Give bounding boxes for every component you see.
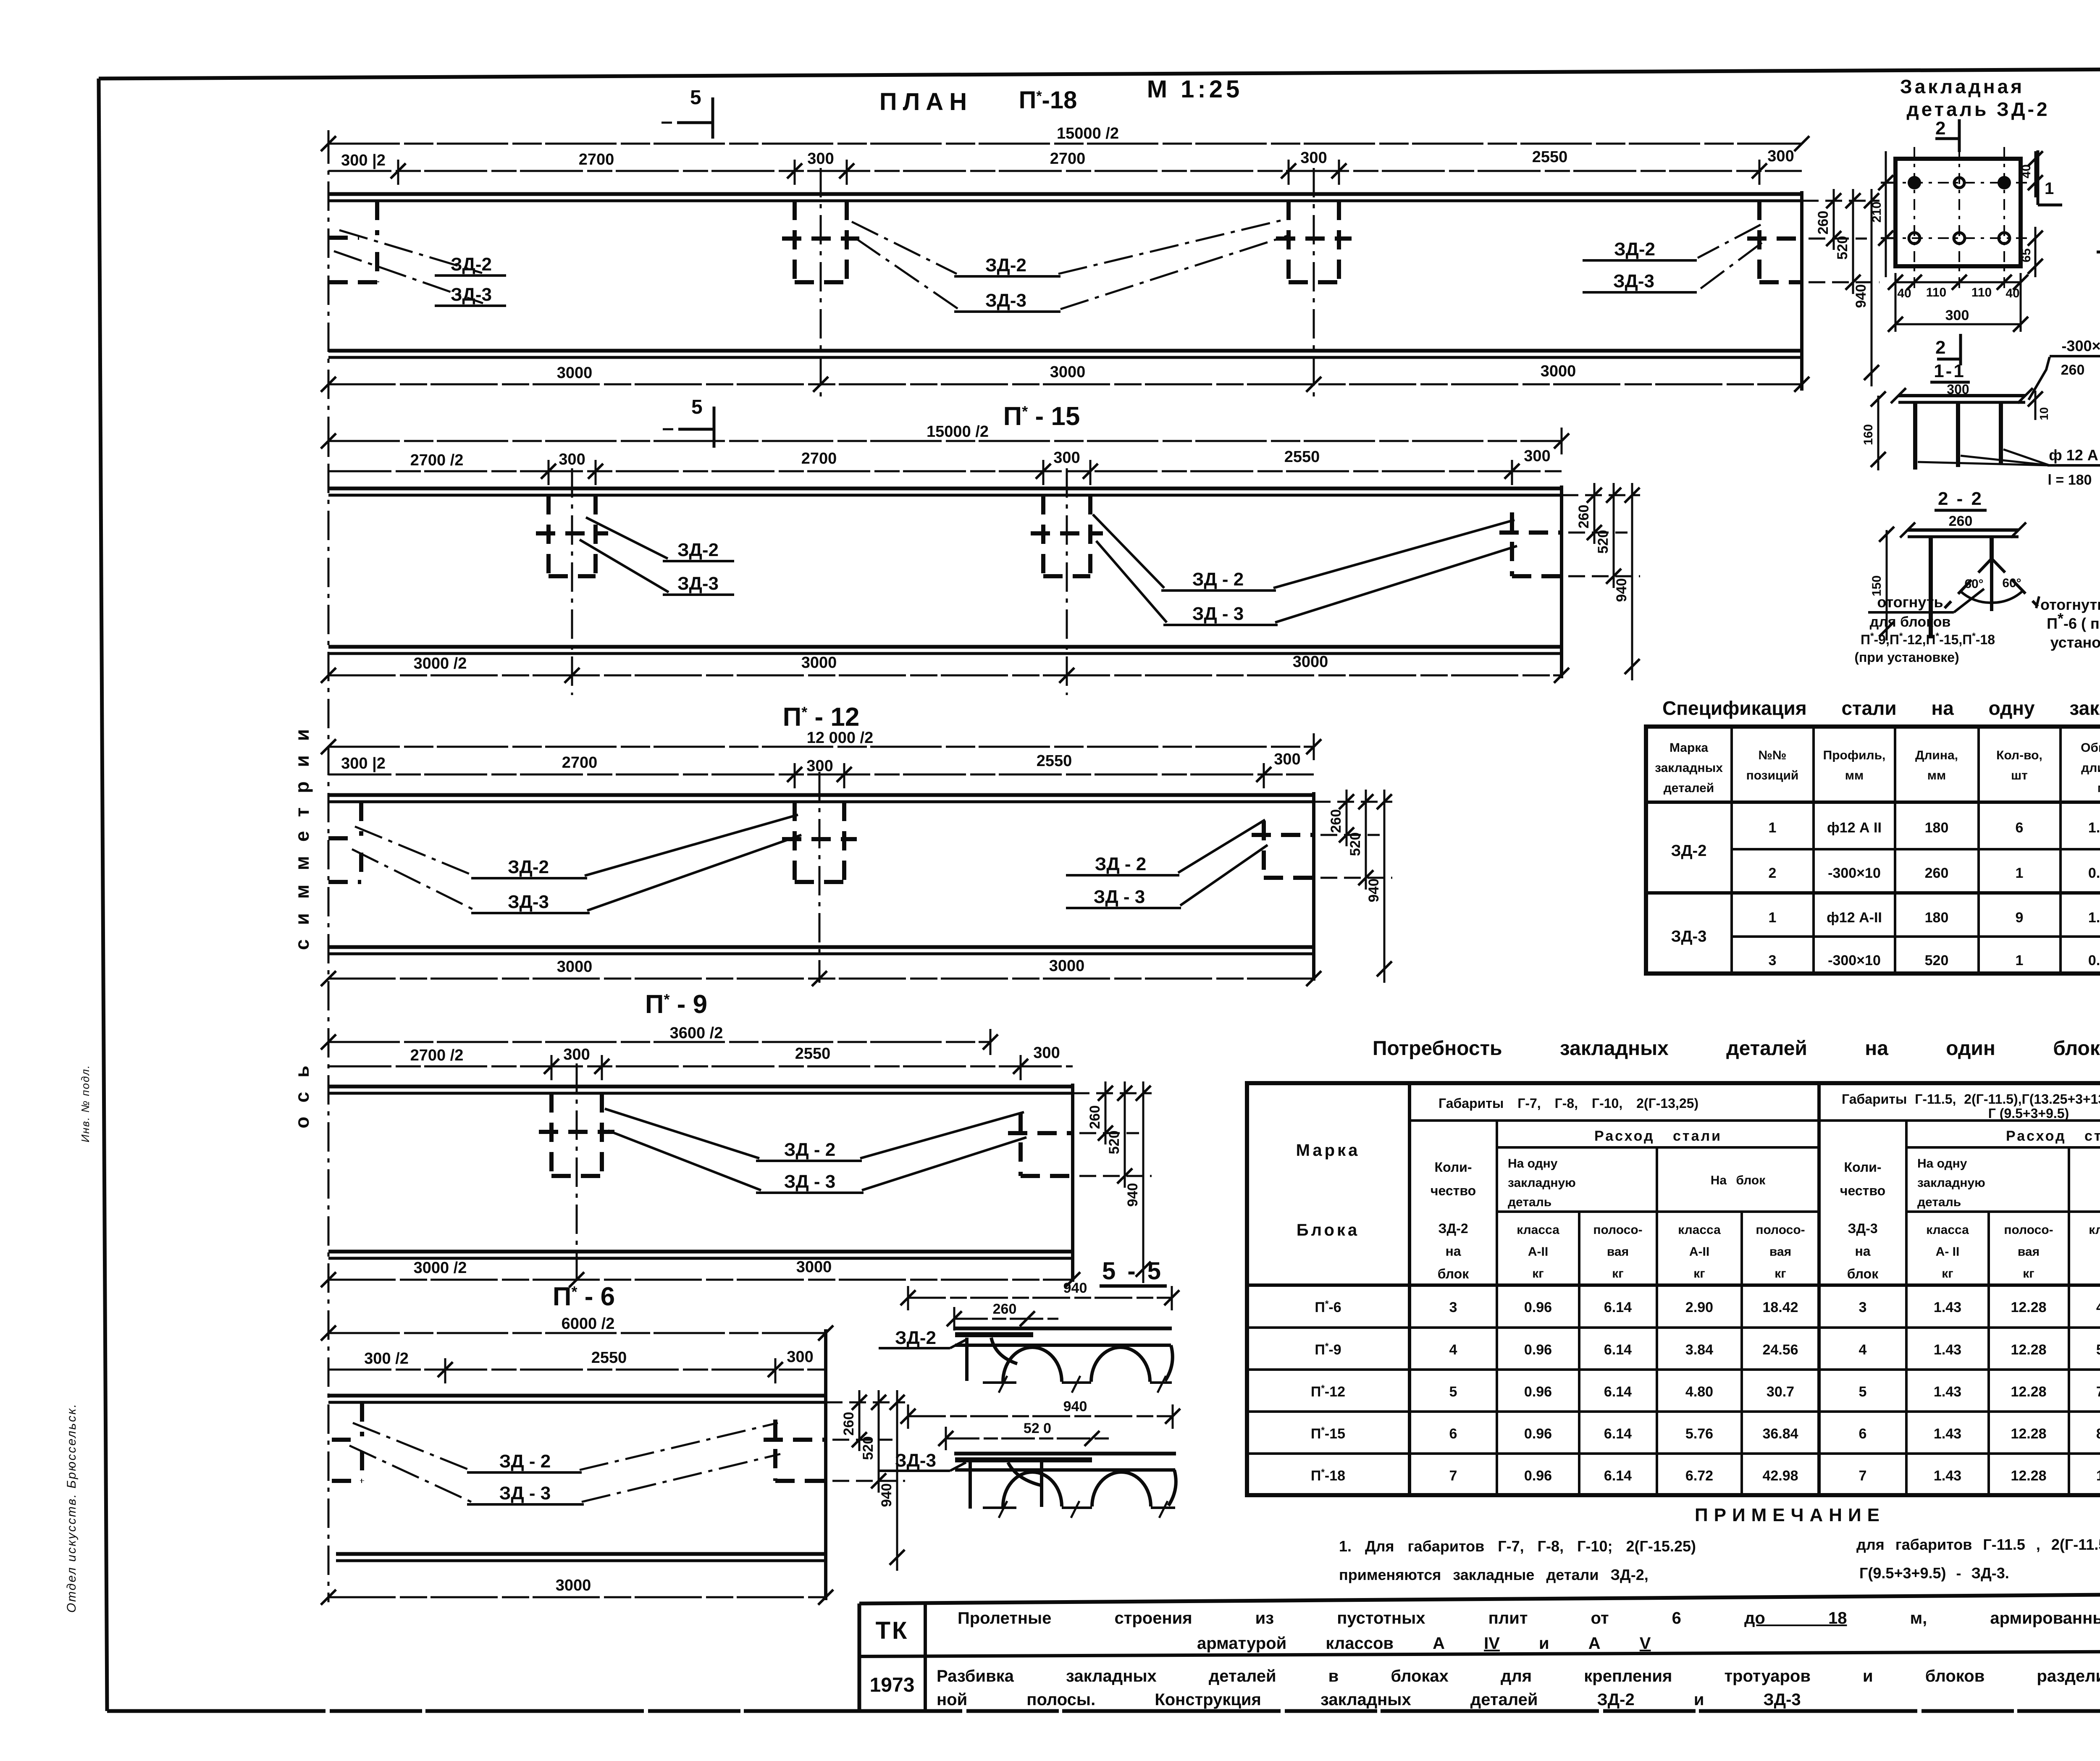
svg-text:вая: вая <box>1769 1245 1791 1259</box>
svg-text:4: 4 <box>1859 1342 1867 1358</box>
svg-text:520: 520 <box>1835 236 1851 260</box>
specification steel table <box>1646 727 2100 974</box>
svg-text:-300×10: -300×10 <box>1828 953 1881 968</box>
svg-text:42.98: 42.98 <box>1762 1468 1798 1484</box>
beam bottom edge double line <box>328 1252 1073 1258</box>
svg-text:На одну: На одну <box>1917 1157 1967 1171</box>
dimension line 3600/2 <box>321 1024 998 1055</box>
svg-text:10.0: 10.0 <box>2096 1468 2100 1484</box>
leader label ф12АII l=180 pos.1 <box>1918 446 2100 488</box>
right vertical dims 260 520 940 <box>1314 790 1392 983</box>
header texts <box>1655 741 2100 795</box>
svg-text:ной полосы. Конструкция заклад: ной полосы. Конструкция закладных детале… <box>937 1690 1801 1709</box>
svg-text:П*-9,П*-12,П*-15,П*-18: П*-9,П*-12,П*-15,П*-18 <box>1861 631 1995 647</box>
beam right end line <box>1560 486 1563 678</box>
beam bottom edge double line <box>328 351 1802 357</box>
svg-text:применяются закладные детали: применяются закладные детали ЗД-2, <box>1339 1566 1648 1583</box>
hollow slab section with embed plate <box>954 1454 1176 1518</box>
section 2-2 <box>1854 488 2100 665</box>
leader ЗД-3 at E1 <box>580 540 734 595</box>
svg-text:П*-6: П*-6 <box>1315 1299 1341 1315</box>
svg-text:3.84: 3.84 <box>1685 1342 1713 1358</box>
svg-text:арматурой классов А IV и А V: арматурой классов А IV и А V <box>1197 1634 1651 1653</box>
right vertical dims 260 520 940 <box>1802 189 1879 386</box>
beam bottom edge double line <box>336 1554 826 1561</box>
leader ЗД-2 right <box>1066 820 1265 875</box>
svg-text:А-II: А-II <box>1528 1245 1548 1259</box>
svg-text:520: 520 <box>860 1436 876 1460</box>
svg-text:-300×10: -300×10 <box>2061 337 2100 354</box>
plate ЗД-2 <box>1895 159 2021 266</box>
svg-text:300: 300 <box>1053 449 1080 467</box>
svg-text:2: 2 <box>1935 118 1945 139</box>
beam top edge double line <box>328 1396 826 1402</box>
embed plate E4 right (dashed) <box>1747 201 1802 282</box>
centerline embed E2 <box>820 168 822 401</box>
svg-text:940: 940 <box>1853 284 1869 308</box>
beam bottom edge double line <box>328 647 1562 653</box>
svg-text:ЗД - 2: ЗД - 2 <box>499 1451 551 1472</box>
axis of symmetry centerline <box>328 134 330 1602</box>
svg-text:2700: 2700 <box>562 754 598 772</box>
svg-text:12 000 /2: 12 000 /2 <box>807 729 873 747</box>
svg-text:ось: ось <box>291 1051 313 1128</box>
right small dims 40 65 <box>2019 151 2043 277</box>
svg-text:полосо-: полосо- <box>1756 1223 1805 1237</box>
svg-text:6.14: 6.14 <box>1604 1426 1632 1442</box>
beam top edge double line <box>328 795 1314 802</box>
svg-text:ЗД - 2: ЗД - 2 <box>1095 854 1146 874</box>
svg-text:мм: мм <box>1845 769 1864 782</box>
svg-text:вая: вая <box>2018 1245 2040 1259</box>
section mark 1 right <box>2038 150 2062 205</box>
svg-text:Расход стали: Расход стали <box>2006 1128 2100 1144</box>
svg-text:Общая: Общая <box>2081 741 2100 755</box>
svg-text:Кол-во,: Кол-во, <box>1996 748 2042 762</box>
hole centerlines <box>1886 147 2033 294</box>
svg-text:6.14: 6.14 <box>1604 1299 1632 1315</box>
beam bottom edge double line <box>328 947 1314 954</box>
svg-text:940: 940 <box>879 1483 895 1507</box>
svg-text:3000 /2: 3000 /2 <box>414 655 467 672</box>
svg-text:1: 1 <box>1769 910 1777 926</box>
right small dim 10 <box>2028 391 2050 420</box>
svg-text:1: 1 <box>1769 820 1777 836</box>
svg-text:позиций: позиций <box>1746 769 1799 782</box>
svg-text:65: 65 <box>2019 248 2033 262</box>
svg-text:0.96: 0.96 <box>1524 1342 1552 1358</box>
title block <box>859 1593 2100 1711</box>
label ЗД-3 with leader <box>879 1450 966 1471</box>
svg-text:24.56: 24.56 <box>1762 1342 1798 1358</box>
svg-text:Закладная: Закладная <box>1900 76 2024 97</box>
svg-text:ТК: ТК <box>876 1617 909 1644</box>
svg-text:l = 180: l = 180 <box>2048 472 2092 488</box>
svg-text:Коли-: Коли- <box>1844 1160 1882 1175</box>
data rows <box>1671 820 2100 968</box>
svg-text:300: 300 <box>1524 447 1550 465</box>
svg-text:5: 5 <box>691 396 703 418</box>
leader ЗД-3 middle <box>1096 541 1517 625</box>
svg-text:деталь: деталь <box>1508 1195 1551 1209</box>
svg-text:3600 /2: 3600 /2 <box>670 1024 723 1042</box>
svg-text:2550: 2550 <box>795 1045 831 1063</box>
svg-text:блок: блок <box>1438 1266 1469 1281</box>
svg-text:класса: класса <box>1926 1223 1969 1237</box>
dimension line 300/2 2550 300 <box>328 1348 826 1383</box>
svg-text:ЗД-2: ЗД-2 <box>895 1328 936 1348</box>
row horizontals <box>1247 1283 2100 1287</box>
svg-text:40: 40 <box>2019 164 2033 178</box>
section mark 2 top <box>1935 118 1959 152</box>
svg-text:для габаритов Г-11.5 , 2(Г-: для габаритов Г-11.5 , 2(Г-11.5), Г(13.2… <box>1856 1536 2100 1553</box>
embed plate left (dashed) <box>332 1402 362 1481</box>
svg-text:3000: 3000 <box>557 958 593 976</box>
embed plate E1 (dashed) <box>536 495 608 576</box>
svg-text:Разбивка закладных деталей в б: Разбивка закладных деталей в блоках для … <box>937 1667 2100 1685</box>
dimension line 6000/2 <box>321 1315 833 1341</box>
svg-text:ЗД-2: ЗД-2 <box>1671 842 1707 860</box>
svg-text:160: 160 <box>1861 424 1875 445</box>
svg-text:-300×10: -300×10 <box>1828 865 1881 881</box>
svg-text:3000: 3000 <box>801 654 837 672</box>
bottom dims 40 110 110 40 <box>1888 275 2028 300</box>
svg-text:для блоков: для блоков <box>1870 614 1951 630</box>
svg-text:ф 12 А II: ф 12 А II <box>2049 446 2100 464</box>
leader ЗД-3 left <box>352 835 801 913</box>
leader ЗД-2 right <box>1583 225 1761 260</box>
dimension line 15000/2 <box>321 423 1569 454</box>
svg-text:Длина,: Длина, <box>1915 748 1958 762</box>
svg-text:ПЛАН: ПЛАН <box>879 88 973 115</box>
row2 text Разбивка закладных деталей <box>937 1667 2100 1709</box>
dimension line 2700/2 300 2700 300 2550 300 <box>328 447 1562 485</box>
svg-text:5: 5 <box>1859 1384 1867 1400</box>
leader ЗД-2 left <box>355 815 798 878</box>
anchor studs <box>1915 402 2001 470</box>
svg-text:36.84: 36.84 <box>1762 1426 1798 1442</box>
section 5-5 slab view ЗД-2 <box>879 1280 1179 1393</box>
svg-text:260: 260 <box>2061 362 2085 378</box>
svg-text:Инв. № подл.: Инв. № подл. <box>79 1065 92 1142</box>
svg-text:4.30: 4.30 <box>2096 1299 2100 1315</box>
svg-text:ЗД-2: ЗД-2 <box>451 254 492 275</box>
plate bar <box>1900 522 2026 538</box>
embedded detail ЗД-3 <box>2097 74 2100 716</box>
svg-text:Профиль,: Профиль, <box>1823 748 1886 762</box>
svg-text:10: 10 <box>2037 407 2050 420</box>
row1 text Пролетные строения <box>958 1609 2100 1653</box>
dimension line 15000/2 <box>321 125 1809 157</box>
label ЗД-2 with leader <box>879 1328 966 1348</box>
svg-text:0.96: 0.96 <box>1524 1299 1552 1315</box>
svg-text:300: 300 <box>1033 1044 1060 1062</box>
svg-text:ЗД-3: ЗД-3 <box>1613 271 1654 291</box>
svg-text:300: 300 <box>1767 147 1794 165</box>
title ПЛАН П*-18 М 1:25 <box>879 76 1243 115</box>
svg-text:3000: 3000 <box>1050 363 1086 381</box>
svg-text:(при установке): (при установке) <box>1854 650 1959 665</box>
section mark 3 left <box>2097 213 2100 252</box>
title Закладная деталь ЗД-2 <box>1900 76 2050 120</box>
svg-text:210: 210 <box>1870 202 1884 223</box>
svg-text:2.90: 2.90 <box>1685 1299 1713 1315</box>
svg-text:12.28: 12.28 <box>2011 1468 2046 1484</box>
svg-text:3: 3 <box>1449 1299 1457 1315</box>
svg-text:на: на <box>1445 1244 1461 1259</box>
svg-text:520: 520 <box>1106 1131 1122 1155</box>
svg-text:110: 110 <box>1971 286 1992 299</box>
svg-text:30.7: 30.7 <box>1767 1384 1794 1400</box>
data rows <box>1311 1299 2100 1484</box>
svg-text:Г (9.5+3+9.5): Г (9.5+3+9.5) <box>1988 1106 2069 1121</box>
svg-text:260: 260 <box>1925 865 1949 881</box>
embed plate E1 (dashed) <box>782 802 857 882</box>
verticals <box>1730 727 1733 974</box>
svg-text:ЗД-3: ЗД-3 <box>1671 928 1707 945</box>
svg-text:2550: 2550 <box>1532 148 1568 166</box>
svg-text:3000: 3000 <box>1049 957 1085 975</box>
svg-text:8.58: 8.58 <box>2096 1426 2100 1442</box>
note отогнуть для блоков <box>1854 589 1995 665</box>
svg-text:40: 40 <box>1897 286 1911 300</box>
embed plate E2 (dashed) <box>1031 495 1103 576</box>
leader ЗД-2 middle <box>1093 514 1515 590</box>
label 1-1 <box>1930 361 1970 397</box>
svg-text:Расход стали: Расход стали <box>1594 1128 1722 1144</box>
svg-text:2700 /2: 2700 /2 <box>410 451 464 469</box>
svg-text:Марка: Марка <box>1669 741 1708 755</box>
beam top edge double line <box>328 488 1562 495</box>
svg-text:260: 260 <box>1949 513 1973 529</box>
dimension line 300/2 2700 300 2550 300 <box>328 751 1314 788</box>
svg-text:12.28: 12.28 <box>2011 1299 2046 1315</box>
embed plate E3 (dashed) <box>1276 201 1352 282</box>
svg-text:12.28: 12.28 <box>2011 1426 2046 1442</box>
svg-text:260: 260 <box>993 1301 1017 1317</box>
svg-text:2: 2 <box>1935 337 1945 358</box>
bottom dimension line 3000/2 3000 3000 <box>321 653 1569 683</box>
svg-text:Пролетные строения из пустотны: Пролетные строения из пустотных плит от … <box>958 1609 2100 1627</box>
holes row 1 <box>1908 176 2011 189</box>
svg-text:180: 180 <box>1925 820 1949 836</box>
header texts <box>1296 1092 2100 1281</box>
note отогнуть для П-6 <box>2036 596 2100 651</box>
svg-text:7: 7 <box>1449 1468 1457 1484</box>
dim 940 <box>900 1399 1180 1429</box>
svg-text:6.72: 6.72 <box>1685 1468 1713 1484</box>
svg-text:ЗД-3: ЗД-3 <box>508 892 549 912</box>
svg-text:А- II: А- II <box>1936 1245 1960 1259</box>
svg-text:деталь ЗД-2: деталь ЗД-2 <box>1906 98 2050 120</box>
hollow slab section with embed plate <box>954 1328 1173 1393</box>
svg-text:940: 940 <box>1614 578 1630 602</box>
svg-text:1.43: 1.43 <box>1934 1299 1961 1315</box>
svg-text:мм: мм <box>1927 769 1946 782</box>
svg-text:на: на <box>1855 1244 1870 1259</box>
svg-text:ЗД - 3: ЗД - 3 <box>1094 887 1145 907</box>
svg-text:шт: шт <box>2011 769 2028 782</box>
leader ЗД-3 left <box>334 251 506 306</box>
dimension line 12000/2 <box>321 729 1321 760</box>
svg-text:П*-9: П*-9 <box>1315 1341 1341 1358</box>
svg-text:ЗД - 2: ЗД - 2 <box>1192 569 1244 590</box>
embed plate right (dashed) <box>764 1420 826 1481</box>
svg-text:отогнуть для: отогнуть для <box>2040 596 2100 613</box>
left margin archive handwriting (vertical) <box>65 1065 92 1613</box>
svg-text:2 - 2: 2 - 2 <box>1938 488 1983 509</box>
svg-text:деталей: деталей <box>1664 781 1714 795</box>
embed plate E2 (dashed) <box>782 201 859 282</box>
embed plate E1 left (dashed) <box>328 201 377 282</box>
svg-text:520: 520 <box>1347 832 1363 856</box>
svg-text:2550: 2550 <box>591 1349 627 1367</box>
section flag 5 bottom <box>663 396 714 448</box>
svg-text:1.62: 1.62 <box>2088 910 2100 926</box>
beam П*-12 plan <box>321 703 1392 986</box>
leader ЗД-3 middle <box>856 235 1289 312</box>
svg-text:12.28: 12.28 <box>2011 1384 2046 1400</box>
svg-text:чество: чество <box>1431 1183 1476 1198</box>
svg-text:260: 260 <box>1576 505 1592 529</box>
label 2-2 <box>1935 488 1987 529</box>
svg-text:ЗД-2: ЗД-2 <box>1438 1221 1468 1236</box>
svg-text:ф12 А II: ф12 А II <box>1827 820 1882 836</box>
bottom dimension line 3000 3000 3000 <box>321 362 1809 392</box>
title block frame <box>859 1593 2100 1711</box>
svg-text:2700 /2: 2700 /2 <box>410 1047 464 1064</box>
demand of embedded details table <box>1247 1083 2100 1495</box>
right vertical dims 260 520 940 <box>826 1390 905 1571</box>
svg-text:6000 /2: 6000 /2 <box>562 1315 615 1333</box>
svg-text:300: 300 <box>559 451 585 468</box>
centerline embed E1 <box>571 468 573 695</box>
svg-text:300: 300 <box>1300 149 1327 167</box>
svg-text:м: м <box>2097 781 2100 795</box>
svg-text:940: 940 <box>1366 879 1382 903</box>
svg-text:6: 6 <box>1449 1426 1457 1442</box>
svg-text:кг: кг <box>2023 1267 2034 1281</box>
section flag 5 top <box>661 87 713 139</box>
svg-text:установке): установке) <box>2050 634 2100 651</box>
svg-text:ЗД-3: ЗД-3 <box>1848 1221 1877 1236</box>
beam П*-9 plan <box>321 990 1152 1287</box>
svg-text:3000: 3000 <box>556 1577 591 1594</box>
svg-text:Отдел искусств. Брюссельск.: Отдел искусств. Брюссельск. <box>65 1403 79 1613</box>
svg-text:П*-18: П*-18 <box>1311 1467 1345 1484</box>
embed plate left edge (dashed) <box>328 802 361 882</box>
svg-text:15000 /2: 15000 /2 <box>927 423 989 441</box>
svg-text:вая: вая <box>1607 1245 1629 1259</box>
embed plate E2 right (dashed) <box>1252 821 1314 878</box>
centerline embed E1 <box>576 1063 578 1283</box>
svg-text:2700: 2700 <box>801 450 837 467</box>
svg-text:1.43: 1.43 <box>1934 1342 1961 1358</box>
svg-text:чество: чество <box>1840 1183 1885 1198</box>
bottom dimension line 3000 <box>321 1577 833 1605</box>
axis label ось симметрии (vertical) <box>291 715 313 1129</box>
svg-text:260: 260 <box>1087 1105 1103 1129</box>
leader ЗД-3 right <box>1066 845 1268 908</box>
svg-text:П*-15: П*-15 <box>1311 1425 1345 1442</box>
bottom dimension line 3000 3000 <box>321 957 1321 986</box>
svg-text:2700: 2700 <box>1050 150 1086 168</box>
left dim 150 <box>1870 527 1894 640</box>
svg-text:5: 5 <box>1449 1384 1457 1400</box>
svg-text:кг: кг <box>1612 1267 1624 1281</box>
svg-text:5.72: 5.72 <box>2096 1342 2100 1358</box>
svg-text:1.08: 1.08 <box>2088 820 2100 836</box>
svg-text:3: 3 <box>1769 953 1777 968</box>
beam right end line <box>1800 191 1803 391</box>
embed plate E1 (dashed) <box>539 1093 614 1176</box>
svg-text:6.14: 6.14 <box>1604 1468 1632 1484</box>
svg-text:1-1: 1-1 <box>1934 361 1966 381</box>
svg-text:520: 520 <box>1595 530 1611 554</box>
verticals <box>1408 1083 1411 1495</box>
svg-text:кг: кг <box>1532 1267 1544 1281</box>
svg-text:940: 940 <box>1125 1183 1141 1207</box>
svg-text:Блока: Блока <box>1297 1221 1360 1239</box>
left extension dashes to plate <box>1870 151 1898 277</box>
leader label -300x10 260 pos.2 <box>2029 337 2100 400</box>
beam top edge double line <box>328 194 1802 201</box>
right vertical dims 260 520 940 <box>1073 1081 1152 1283</box>
beam right end line <box>1312 792 1315 981</box>
svg-text:180: 180 <box>1925 910 1949 926</box>
leader ЗД-3 right <box>1583 243 1762 292</box>
svg-text:300: 300 <box>563 1046 590 1063</box>
svg-text:ПРИМЕЧАНИЕ: ПРИМЕЧАНИЕ <box>1695 1505 1885 1525</box>
section 1-1 <box>1861 361 2100 488</box>
svg-text:ЗД-3: ЗД-3 <box>677 573 719 594</box>
svg-text:3000: 3000 <box>557 364 593 382</box>
svg-text:Марка: Марка <box>1296 1141 1360 1160</box>
svg-text:симметрии: симметрии <box>291 715 313 950</box>
svg-text:3: 3 <box>1859 1299 1867 1315</box>
svg-text:Габариты Г-7, Г-8, Г-10, 2(Г: Габариты Г-7, Г-8, Г-10, 2(Г-13,25) <box>1438 1096 1698 1111</box>
svg-text:300: 300 <box>1945 307 1969 323</box>
svg-text:52 0: 52 0 <box>1024 1420 1051 1436</box>
left dim 160 <box>1861 391 1886 470</box>
svg-text:П*-18: П*-18 <box>1019 87 1077 114</box>
svg-text:На одну: На одну <box>1508 1157 1558 1171</box>
svg-text:940: 940 <box>1063 1399 1087 1415</box>
beam top edge double line <box>328 1087 1073 1093</box>
svg-text:класса: класса <box>2089 1223 2100 1237</box>
header horizontals <box>1410 1119 2100 1122</box>
svg-text:полосо-: полосо- <box>1593 1223 1642 1237</box>
svg-text:П*-12: П*-12 <box>1311 1383 1345 1400</box>
svg-text:2550: 2550 <box>1037 752 1072 770</box>
svg-text:7.15: 7.15 <box>2096 1384 2100 1400</box>
dim 520 <box>938 1420 1109 1450</box>
svg-text:3000: 3000 <box>796 1258 832 1276</box>
svg-text:ЗД - 3: ЗД - 3 <box>784 1171 835 1192</box>
svg-text:7: 7 <box>1859 1468 1867 1484</box>
svg-text:60°: 60° <box>1964 577 1983 591</box>
svg-text:1.43: 1.43 <box>1934 1426 1961 1442</box>
svg-text:закладную: закладную <box>1917 1176 1985 1190</box>
svg-text:ЗД-3: ЗД-3 <box>895 1450 936 1471</box>
svg-text:№№: №№ <box>1759 748 1787 762</box>
dimension line 2700/2 300 2550 300 <box>328 1044 1073 1080</box>
svg-text:кг: кг <box>1942 1267 1953 1281</box>
beam right end line <box>824 1329 827 1600</box>
embedded detail ЗД-2 <box>1854 76 2100 665</box>
leader ЗД-2 middle <box>605 1109 1024 1161</box>
svg-text:300: 300 <box>1274 751 1300 768</box>
